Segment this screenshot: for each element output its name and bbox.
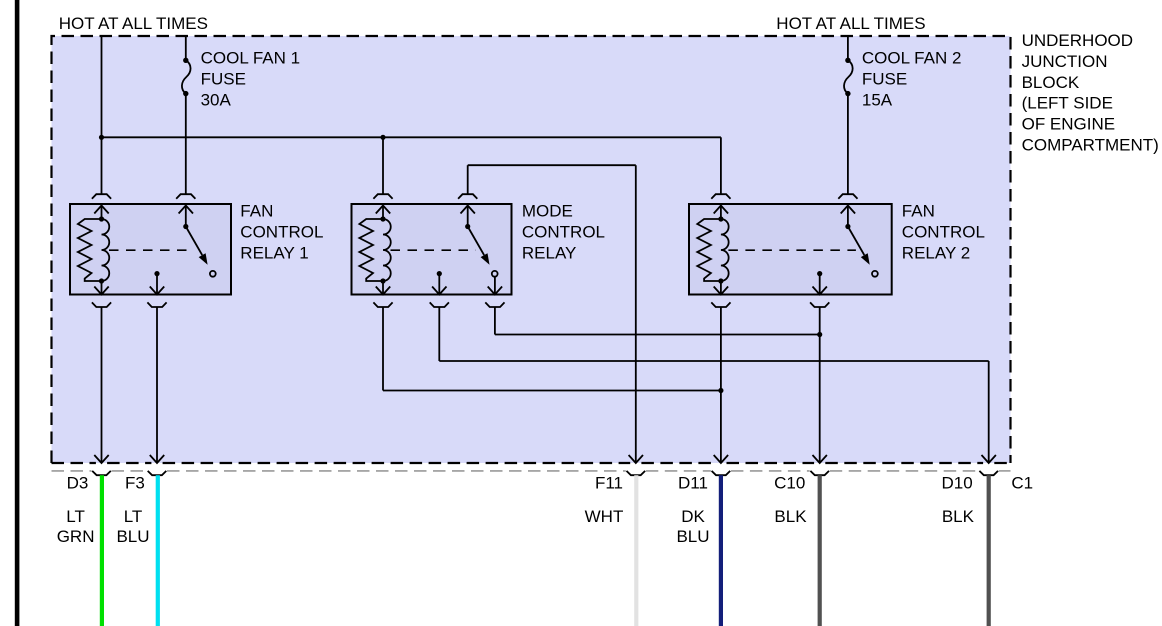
svg-text:D11: D11	[678, 474, 708, 493]
connector pin D11	[712, 471, 731, 475]
relay K2 MODE CONTROL RELAY NO contact pin out bottom	[494, 277, 496, 295]
wire WHT (to F11)	[634, 475, 638, 626]
relay K1 FAN CONTROL RELAY 1 coil pin out bottom	[101, 281, 103, 295]
relay K3 FAN CONTROL RELAY 2 coil pin arrow into box	[714, 206, 728, 214]
svg-text:HOT AT ALL TIMES: HOT AT ALL TIMES	[776, 14, 925, 33]
connector pin D10	[979, 471, 998, 475]
svg-text:CONTROL: CONTROL	[902, 223, 985, 242]
node junction mode NO contact / relay K3 output (C10 net)	[817, 332, 822, 337]
connector C1 boundary (gray dashed)	[52, 470, 92, 472]
svg-text:FUSE: FUSE	[862, 70, 907, 89]
relay K2 MODE CONTROL RELAY coil pin bottom connector	[373, 302, 392, 307]
svg-text:F3: F3	[125, 474, 145, 493]
relay K1 FAN CONTROL RELAY 1 coil pin bottom connector	[92, 302, 111, 307]
svg-text:JUNCTION: JUNCTION	[1022, 52, 1108, 71]
relay K2 MODE CONTROL RELAY coil pin arrow into box	[376, 206, 390, 214]
wire relay K3 output to connector C10	[819, 307, 821, 463]
relay K2 MODE CONTROL RELAY coil inductive winding (arcs)	[383, 219, 391, 281]
relay K3 FAN CONTROL RELAY 2 output pin out bottom	[819, 274, 821, 295]
svg-text:COOL FAN 2: COOL FAN 2	[862, 49, 962, 68]
junction block bottom dashed edge	[52, 462, 96, 464]
svg-text:GRN: GRN	[57, 527, 95, 546]
relay K1 FAN CONTROL RELAY 1 actuator link (dashed)	[109, 249, 194, 251]
relay K1 FAN CONTROL RELAY 1 coil inductive winding (arcs)	[102, 219, 110, 281]
svg-text:D10: D10	[942, 474, 973, 493]
relay K3 FAN CONTROL RELAY 2 box	[689, 204, 892, 295]
relay K2 MODE CONTROL RELAY actuator link (dashed)	[391, 249, 476, 251]
node bus junction to mode relay coil	[380, 135, 385, 140]
wire fused feed upper (to fuse 2)	[847, 36, 849, 60]
relay K3 FAN CONTROL RELAY 2 actuator link (dashed)	[728, 249, 856, 251]
wire mode relay switch feed (from F11 riser)	[467, 165, 469, 194]
wire LT BLU (to F3)	[156, 475, 160, 626]
relay K2 MODE CONTROL RELAY switch pin top connector	[458, 194, 477, 199]
svg-text:LT: LT	[66, 507, 85, 526]
wire F11 riser to connector F11	[635, 165, 637, 463]
svg-text:FAN: FAN	[240, 202, 273, 221]
relay K3 FAN CONTROL RELAY 2 output terminal node	[817, 271, 822, 276]
svg-text:BLU: BLU	[676, 527, 709, 546]
connector pin F11	[627, 471, 646, 475]
svg-text:OF ENGINE: OF ENGINE	[1022, 115, 1116, 134]
relay K3 FAN CONTROL RELAY 2 coil pin out bottom	[720, 281, 722, 295]
svg-text:RELAY 1: RELAY 1	[240, 243, 308, 262]
wire mode relay NO contact run (C10 net)	[494, 307, 496, 335]
relay K1 FAN CONTROL RELAY 1 coil pin arrow into box	[94, 206, 108, 214]
relay K1 FAN CONTROL RELAY 1 output pin bottom connector	[147, 302, 166, 307]
wire battery feed to fan relay 1 coil	[101, 36, 103, 194]
svg-text:(LEFT SIDE: (LEFT SIDE	[1022, 94, 1113, 113]
relay K1 FAN CONTROL RELAY 1 switch blade and contact	[186, 227, 202, 256]
relay K2 MODE CONTROL RELAY switch pin arrow into box	[461, 206, 475, 214]
relay K3 FAN CONTROL RELAY 2 coil pin top connector	[711, 194, 730, 199]
wire mode relay output run to D10	[438, 307, 440, 361]
relay K3 FAN CONTROL RELAY 2 output pin bottom connector	[810, 302, 829, 307]
wire bus drop to mode relay coil	[382, 137, 384, 194]
svg-text:MODE: MODE	[522, 202, 573, 221]
svg-text:COMPARTMENT): COMPARTMENT)	[1022, 136, 1159, 155]
relay K2 MODE CONTROL RELAY output pin bottom connector	[430, 302, 449, 307]
wire bus corner drop to fan relay 2 coil	[720, 137, 722, 194]
svg-text:RELAY 2: RELAY 2	[902, 243, 970, 262]
node junction mode coil / relay K3 coil (D11 net)	[718, 388, 723, 393]
relay K1 FAN CONTROL RELAY 1 output pin out bottom	[156, 274, 158, 295]
wire BLK (to C10)	[818, 475, 822, 626]
relay K1 FAN CONTROL RELAY 1 coil bottom terminal node	[99, 278, 104, 283]
relay K1 FAN CONTROL RELAY 1 output terminal node	[154, 271, 159, 276]
svg-text:CONTROL: CONTROL	[240, 223, 323, 242]
wire fuse 2 output to relay 2 switch	[847, 94, 849, 195]
wire relay K1 coil to connector D3	[101, 307, 103, 463]
relay K1 FAN CONTROL RELAY 1 box	[70, 204, 231, 295]
underhood junction block box (dashed, lavender fill)	[52, 36, 1011, 463]
svg-text:FUSE: FUSE	[201, 70, 246, 89]
svg-text:WHT: WHT	[585, 507, 624, 526]
connector pin C10	[810, 471, 829, 475]
relay K2 MODE CONTROL RELAY NO contact pin bottom connector	[485, 302, 504, 307]
svg-text:C10: C10	[774, 474, 805, 493]
svg-text:BLK: BLK	[942, 507, 975, 526]
svg-text:BLOCK: BLOCK	[1022, 73, 1080, 92]
svg-text:LT: LT	[124, 507, 143, 526]
relay K1 FAN CONTROL RELAY 1 coil top terminal node	[99, 216, 104, 221]
relay K3 FAN CONTROL RELAY 2 coil resistive winding (zigzag)	[697, 219, 721, 281]
relay K2 MODE CONTROL RELAY coil bottom terminal node	[380, 278, 385, 283]
node bus junction at relay1 feed	[99, 135, 104, 140]
svg-text:30A: 30A	[201, 90, 232, 109]
svg-text:RELAY: RELAY	[522, 243, 577, 262]
wire bus hot-at-all-times horizontal	[102, 136, 721, 138]
wire relay K1 output to connector F3	[156, 307, 158, 463]
relay K3 FAN CONTROL RELAY 2 switch pin arrow into box	[841, 206, 855, 214]
relay K1 FAN CONTROL RELAY 1 switch pin arrow into box	[179, 206, 193, 214]
wire fuse 1 output to relay 1 switch	[185, 94, 187, 195]
relay K3 FAN CONTROL RELAY 2 coil bottom terminal node	[718, 278, 723, 283]
relay K1 FAN CONTROL RELAY 1 coil resistive winding (zigzag)	[78, 219, 102, 281]
connector pin F3	[148, 471, 167, 475]
relay K2 MODE CONTROL RELAY switch blade and contact	[468, 227, 484, 256]
wire LT GRN (to D3)	[100, 475, 104, 626]
relay K1 FAN CONTROL RELAY 1 coil pin top connector	[92, 194, 111, 199]
relay K2 MODE CONTROL RELAY coil top terminal node	[380, 216, 385, 221]
relay K2 MODE CONTROL RELAY output pin out bottom	[438, 274, 440, 295]
relay K1 FAN CONTROL RELAY 1 switch pin top connector	[176, 194, 195, 199]
svg-text:COOL FAN 1: COOL FAN 1	[201, 49, 301, 68]
svg-text:BLU: BLU	[116, 527, 149, 546]
left page border bar	[15, 0, 20, 626]
relay K3 FAN CONTROL RELAY 2 coil top terminal node	[718, 216, 723, 221]
relay K2 MODE CONTROL RELAY coil resistive winding (zigzag)	[359, 219, 383, 281]
relay K2 MODE CONTROL RELAY output terminal node	[437, 271, 442, 276]
wire DK BLU (to D11)	[719, 475, 723, 626]
svg-text:15A: 15A	[862, 90, 893, 109]
relay K3 FAN CONTROL RELAY 2 coil pin bottom connector	[711, 302, 730, 307]
wire mode relay coil low side run	[382, 307, 384, 391]
svg-text:UNDERHOOD: UNDERHOOD	[1022, 31, 1133, 50]
relay K2 MODE CONTROL RELAY box	[352, 204, 512, 295]
svg-text:HOT AT ALL TIMES: HOT AT ALL TIMES	[59, 14, 208, 33]
svg-text:DK: DK	[681, 507, 705, 526]
svg-text:CONTROL: CONTROL	[522, 223, 605, 242]
svg-text:BLK: BLK	[774, 507, 807, 526]
svg-text:F11: F11	[595, 474, 623, 493]
wire fused feed upper (to fuse 1)	[185, 36, 187, 60]
svg-text:C1: C1	[1011, 474, 1033, 493]
relay K2 MODE CONTROL RELAY coil pin top connector	[373, 194, 392, 199]
connector pin D3	[92, 471, 111, 475]
relay K3 FAN CONTROL RELAY 2 switch blade and contact	[848, 227, 864, 256]
relay K3 FAN CONTROL RELAY 2 coil inductive winding (arcs)	[721, 219, 729, 281]
wire relay K3 coil to connector D11	[720, 307, 722, 463]
relay K3 FAN CONTROL RELAY 2 switch pin top connector	[838, 194, 857, 199]
svg-text:D3: D3	[67, 474, 89, 493]
fuse COOL FAN 2 FUSE 15A	[844, 60, 853, 93]
fuse COOL FAN 1 FUSE 30A	[182, 60, 191, 93]
wire BLK (to D10)	[987, 475, 991, 626]
svg-text:FAN: FAN	[902, 202, 935, 221]
relay K2 MODE CONTROL RELAY coil pin out bottom	[382, 281, 384, 295]
